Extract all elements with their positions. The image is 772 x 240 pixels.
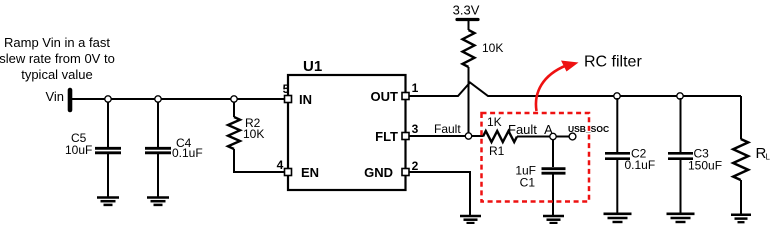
resistor RL load xyxy=(733,96,770,215)
red dashed RC-filter box xyxy=(482,113,590,202)
junction at C2 tap xyxy=(614,93,620,99)
resistor 10K pull-up xyxy=(463,30,504,67)
svg-text:0.1uF: 0.1uF xyxy=(625,158,656,172)
pin 5 IN xyxy=(283,82,292,103)
wire pull-up down to Fault node (crosses OUT rail) xyxy=(468,67,470,136)
annotation: ramp note xyxy=(0,35,115,82)
IC U1 body xyxy=(288,58,406,190)
svg-text:5: 5 xyxy=(283,82,290,96)
resistor R1 1K xyxy=(483,115,517,158)
svg-text:U1: U1 xyxy=(303,58,322,75)
junction at C3 tap xyxy=(677,93,683,99)
junction at R2 tap xyxy=(231,96,237,102)
capacitor C2 0.1uF xyxy=(605,98,655,214)
svg-text:RC filter: RC filter xyxy=(584,54,642,71)
svg-text:OUT: OUT xyxy=(371,89,399,104)
svg-text:GND: GND xyxy=(364,165,393,180)
svg-text:slew rate from 0V to: slew rate from 0V to xyxy=(0,51,115,66)
svg-text:IN: IN xyxy=(299,92,312,107)
svg-text:R1: R1 xyxy=(489,144,505,158)
svg-text:3.3V: 3.3V xyxy=(453,3,480,18)
ground under GND pin xyxy=(460,216,481,223)
wire GND pin to ground xyxy=(409,172,470,216)
svg-text:FLT: FLT xyxy=(375,129,398,144)
svg-text:L: L xyxy=(766,153,771,162)
pin 4 EN xyxy=(277,158,292,176)
svg-text:10K: 10K xyxy=(482,41,503,55)
svg-text:2: 2 xyxy=(412,159,419,173)
wire Vin rail to IN pin xyxy=(72,98,285,100)
ground under C4 xyxy=(147,198,169,205)
svg-text:Vin: Vin xyxy=(45,89,64,104)
ground under C5 xyxy=(97,198,119,205)
junction at C5 tap xyxy=(105,96,111,102)
svg-text:typical value: typical value xyxy=(21,67,93,82)
svg-text:EN: EN xyxy=(301,165,319,180)
wire R2 to EN pin xyxy=(234,149,285,172)
wire FLT pin to Fault node xyxy=(409,135,483,137)
svg-text:10K: 10K xyxy=(243,127,264,141)
junction at C4 tap xyxy=(155,96,161,102)
capacitor C3 150uF xyxy=(668,98,722,214)
ground under C3 xyxy=(667,214,695,222)
svg-text:150uF: 150uF xyxy=(688,159,722,173)
svg-text:0.1uF: 0.1uF xyxy=(172,146,203,160)
svg-text:Fault_A: Fault_A xyxy=(508,122,553,137)
svg-text:1K: 1K xyxy=(487,115,502,129)
svg-text:Ramp Vin in a fast: Ramp Vin in a fast xyxy=(4,35,110,50)
ground under C1 xyxy=(543,216,564,223)
svg-text:C1: C1 xyxy=(520,176,536,190)
svg-text:Fault: Fault xyxy=(434,122,461,136)
pin 1 OUT xyxy=(402,81,419,100)
pin 3 FLT xyxy=(402,122,419,140)
wire R1 to Fault_A node xyxy=(517,136,569,138)
svg-text:1: 1 xyxy=(412,81,419,95)
ground under RL xyxy=(731,215,751,222)
resistor R2 10K xyxy=(228,102,264,149)
capacitor C4 0.1uF xyxy=(145,102,203,197)
pin 2 GND xyxy=(402,159,419,176)
svg-text:3: 3 xyxy=(412,122,419,136)
svg-text:4: 4 xyxy=(277,158,284,172)
red callout arrow xyxy=(536,61,579,112)
node Fault_A xyxy=(508,122,556,140)
power 3.3V supply xyxy=(453,3,480,31)
capacitor C1 1uF xyxy=(515,139,565,216)
ground under C2 xyxy=(604,214,632,222)
wire OUT rail with hop over pull-up wire xyxy=(409,83,741,97)
node Fault xyxy=(434,122,472,139)
capacitor C5 10uF xyxy=(65,102,121,197)
node Vin (label + source terminal bar) xyxy=(45,89,70,110)
svg-text:10uF: 10uF xyxy=(65,143,92,157)
terminal USB_SOC xyxy=(568,124,609,140)
